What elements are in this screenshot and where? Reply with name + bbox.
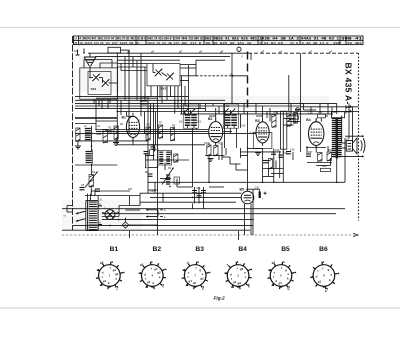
node xyxy=(336,182,338,184)
wire xyxy=(235,164,237,170)
tuning unit SK1 inner box xyxy=(88,72,111,95)
resistor R8 xyxy=(171,128,175,141)
capacitor C12 xyxy=(271,151,276,153)
node xyxy=(198,197,200,199)
output transformer T3 xyxy=(331,112,344,118)
capacitor C8 xyxy=(80,187,85,189)
wire xyxy=(230,163,241,165)
wire xyxy=(192,204,194,209)
tube socket B3 pin diagram xyxy=(184,265,206,287)
wire xyxy=(266,111,268,118)
wire xyxy=(75,140,148,142)
wire xyxy=(208,143,210,146)
wire xyxy=(148,149,150,155)
capacitor C15 xyxy=(306,153,311,155)
wire xyxy=(164,163,166,171)
wire xyxy=(315,118,317,122)
svg-text:C30: C30 xyxy=(290,148,295,151)
wire xyxy=(196,59,225,61)
resistor R6 xyxy=(146,127,150,140)
wire xyxy=(205,155,225,157)
resistor R14 xyxy=(287,114,291,126)
wire xyxy=(95,99,97,129)
wire xyxy=(203,187,205,204)
capacitor C22 xyxy=(144,151,149,153)
tuning unit SK1 outer box xyxy=(80,68,118,99)
ground xyxy=(255,152,261,154)
wire xyxy=(128,57,130,134)
wire xyxy=(180,80,189,82)
svg-text:R17: R17 xyxy=(308,151,313,154)
svg-text:g2: g2 xyxy=(200,277,204,281)
wire xyxy=(243,103,245,114)
wire xyxy=(240,114,242,128)
ground xyxy=(208,158,214,160)
wire xyxy=(161,86,163,103)
wire xyxy=(208,156,210,183)
resistor R15 xyxy=(294,113,298,124)
antenna terminal xyxy=(77,50,79,56)
capacitor C16 xyxy=(192,190,197,192)
wire xyxy=(84,59,112,61)
wire xyxy=(259,189,261,197)
resistor R3 xyxy=(76,128,80,141)
node xyxy=(247,147,249,149)
wire xyxy=(157,86,159,235)
svg-text:a2: a2 xyxy=(193,281,197,285)
node xyxy=(262,182,264,184)
node xyxy=(117,111,119,113)
antenna coil L1 xyxy=(84,56,96,58)
wire xyxy=(96,129,209,131)
wire xyxy=(244,204,246,235)
node xyxy=(157,105,159,107)
wire xyxy=(170,152,172,156)
wire xyxy=(188,65,190,114)
wire xyxy=(117,59,180,61)
wire xyxy=(315,146,317,153)
svg-text:f: f xyxy=(322,266,323,270)
speaker lead bottom xyxy=(342,155,363,157)
wire xyxy=(117,144,205,146)
svg-text:1B: 1B xyxy=(74,42,77,45)
svg-text:L29: L29 xyxy=(318,111,323,114)
wire xyxy=(93,99,95,103)
wire xyxy=(87,194,89,201)
wire xyxy=(250,204,252,235)
wire xyxy=(283,118,295,120)
oscillator coil box xyxy=(158,151,172,166)
wire xyxy=(99,77,103,79)
wire xyxy=(111,60,113,68)
capacitor C18 xyxy=(201,190,206,192)
node xyxy=(147,133,149,135)
wire xyxy=(306,147,326,149)
tube socket B4 pin diagram xyxy=(227,265,249,287)
wire xyxy=(148,181,345,183)
capacitor C11 xyxy=(148,173,153,175)
node xyxy=(231,103,233,105)
capacitor C17 xyxy=(197,193,202,195)
wire xyxy=(66,206,68,213)
wire xyxy=(248,148,263,150)
svg-text:f: f xyxy=(110,266,111,270)
AVC box xyxy=(253,132,272,148)
wire xyxy=(294,112,296,123)
wire xyxy=(144,67,146,100)
wire xyxy=(147,96,149,193)
wire xyxy=(117,111,358,113)
wire xyxy=(184,86,186,106)
svg-text:Fig.2: Fig.2 xyxy=(214,296,226,302)
wire xyxy=(77,141,79,146)
wire xyxy=(121,49,130,51)
resistor R12 xyxy=(269,159,273,169)
power transformer T4 xyxy=(89,201,97,203)
wire xyxy=(107,99,109,108)
node xyxy=(157,225,159,227)
node xyxy=(188,105,190,107)
title block row divider xyxy=(74,39,364,41)
IF transformer T2 xyxy=(223,104,238,128)
choke L2 xyxy=(85,128,91,130)
filter capacitor C19 xyxy=(259,192,261,199)
svg-text:R14: R14 xyxy=(288,111,293,114)
tube B4 xyxy=(309,122,324,146)
wire xyxy=(102,212,105,215)
wire xyxy=(348,103,350,138)
node xyxy=(95,129,97,131)
svg-text:g3: g3 xyxy=(140,263,144,267)
wire xyxy=(117,63,147,65)
capacitor C10 xyxy=(151,146,156,148)
tube socket B5 pin diagram xyxy=(270,265,292,287)
wire xyxy=(140,201,236,203)
wire xyxy=(73,224,254,226)
svg-text:1M: 1M xyxy=(179,121,182,124)
svg-text:B2: B2 xyxy=(208,117,212,121)
wire xyxy=(229,157,231,164)
capacitor C5 xyxy=(108,130,113,132)
svg-text:d: d xyxy=(144,272,146,276)
wire xyxy=(241,155,248,157)
svg-text:f: f xyxy=(281,266,282,270)
wire xyxy=(320,118,322,122)
svg-text:B2: B2 xyxy=(153,246,162,253)
wire xyxy=(75,105,300,107)
wire xyxy=(177,86,179,109)
wire xyxy=(215,143,217,146)
svg-text:g1: g1 xyxy=(318,280,322,284)
node xyxy=(174,103,176,105)
tuning unit SK2 box xyxy=(147,64,180,86)
svg-text:f: f xyxy=(231,277,232,281)
wire xyxy=(116,53,118,145)
wire xyxy=(75,133,256,135)
svg-text:g2: g2 xyxy=(157,270,161,274)
tube socket B6 pin diagram xyxy=(313,265,335,287)
node xyxy=(109,213,110,214)
wire xyxy=(218,106,220,114)
mains lead 1 xyxy=(76,212,84,214)
resistor R19 xyxy=(321,168,331,171)
wire xyxy=(159,86,161,98)
wire xyxy=(310,107,312,112)
node xyxy=(91,164,93,166)
wire xyxy=(96,97,158,99)
wire xyxy=(162,73,168,77)
svg-text:g2: g2 xyxy=(272,260,276,264)
wire xyxy=(183,131,193,133)
capacitor C12b xyxy=(263,160,269,162)
chassis frame right edge xyxy=(358,53,360,220)
tuning capacitor C3 xyxy=(156,70,162,76)
wire xyxy=(177,186,193,188)
wire xyxy=(117,66,147,68)
svg-text:f: f xyxy=(151,266,152,270)
svg-text:R13: R13 xyxy=(274,111,279,114)
svg-text:f: f xyxy=(187,275,188,279)
svg-text:C24: C24 xyxy=(241,125,246,128)
node xyxy=(283,151,285,153)
node xyxy=(238,51,239,52)
node xyxy=(91,145,93,147)
wire xyxy=(331,107,333,116)
wire xyxy=(341,116,343,144)
node xyxy=(157,166,159,168)
wire xyxy=(118,206,120,217)
wire xyxy=(299,53,301,152)
wire xyxy=(212,103,214,106)
ground terminal xyxy=(83,49,85,55)
tuning capacitor C1 xyxy=(93,75,99,81)
node xyxy=(89,77,91,79)
node xyxy=(140,105,142,107)
chassis frame bottom edge xyxy=(62,234,359,236)
wire xyxy=(127,115,134,117)
wire xyxy=(125,209,140,211)
wire xyxy=(111,82,117,84)
wire xyxy=(62,208,345,210)
svg-text:B3: B3 xyxy=(195,246,204,253)
resistor R1 xyxy=(103,130,108,143)
wire xyxy=(246,188,260,190)
svg-text:g1: g1 xyxy=(233,280,237,284)
wire xyxy=(124,57,126,100)
wire xyxy=(140,53,142,116)
output lead arrow 1 xyxy=(146,209,158,211)
wire xyxy=(283,124,293,126)
title block table frame xyxy=(74,36,364,45)
wire xyxy=(153,103,155,160)
dial lamp box xyxy=(108,47,121,53)
svg-text:g1: g1 xyxy=(189,279,193,283)
wire xyxy=(75,108,205,110)
wire xyxy=(279,151,281,178)
svg-text:R11: R11 xyxy=(219,142,224,145)
wire xyxy=(62,229,250,231)
svg-text:8A 30 B25 08 4A1 30: 8A 30 B25 08 4A1 30 xyxy=(206,42,252,45)
wire xyxy=(181,76,183,114)
svg-text:g1: g1 xyxy=(147,280,151,284)
tube socket B2 pin diagram xyxy=(142,265,164,287)
svg-text:L28: L28 xyxy=(309,112,314,115)
wire xyxy=(344,138,346,155)
wire xyxy=(103,99,105,100)
svg-text:SK1: SK1 xyxy=(91,87,97,91)
wire xyxy=(282,111,284,182)
tube socket B1 pin diagram xyxy=(99,265,121,287)
wire xyxy=(263,168,284,170)
node xyxy=(252,219,254,221)
svg-text:d: d xyxy=(275,279,277,283)
wire xyxy=(101,99,103,108)
svg-text:f: f xyxy=(237,266,238,270)
wire xyxy=(229,128,231,134)
wire xyxy=(180,75,196,77)
wire xyxy=(288,121,300,123)
wire xyxy=(288,75,290,111)
wire xyxy=(148,189,158,191)
wire xyxy=(75,164,117,166)
wire xyxy=(89,194,91,201)
svg-text:R15: R15 xyxy=(295,109,300,112)
wire xyxy=(89,73,91,78)
svg-text:g: g xyxy=(327,268,329,272)
svg-text:f: f xyxy=(102,275,103,279)
wire xyxy=(225,148,227,155)
capacitor C9 xyxy=(95,188,100,190)
svg-text:R19: R19 xyxy=(322,165,327,168)
svg-text:lc: lc xyxy=(287,287,290,291)
svg-text:d: d xyxy=(187,260,189,264)
resistor R18 xyxy=(327,152,332,161)
svg-text:LS: LS xyxy=(346,137,349,140)
wire xyxy=(109,82,112,84)
wire xyxy=(174,86,176,114)
node xyxy=(203,201,205,203)
wire xyxy=(67,205,73,207)
svg-text:31 8: 31 8 xyxy=(290,42,298,45)
wire xyxy=(215,108,217,122)
node xyxy=(157,144,159,146)
wire xyxy=(240,151,281,153)
wire xyxy=(300,106,358,108)
wire xyxy=(194,187,196,204)
svg-text:1043 7A 01 4B 257 1B0: 1043 7A 01 4B 257 1B0 xyxy=(147,42,187,45)
wire xyxy=(262,148,264,182)
wire xyxy=(275,161,277,169)
resistor R11 xyxy=(214,146,218,156)
svg-text:C34: C34 xyxy=(196,187,201,190)
wire xyxy=(199,103,201,108)
node xyxy=(95,103,97,105)
mains lead 2 xyxy=(76,219,84,221)
svg-text:g2: g2 xyxy=(115,272,119,276)
wire xyxy=(306,146,308,153)
tuning capacitor C2 xyxy=(103,80,109,86)
potentiometer R2 xyxy=(89,175,94,187)
node xyxy=(128,103,130,105)
wire xyxy=(263,176,274,178)
svg-text:d: d xyxy=(316,275,318,279)
wire xyxy=(342,142,347,144)
wire xyxy=(157,210,159,217)
node xyxy=(224,113,226,115)
svg-text:g1: g1 xyxy=(279,281,283,285)
svg-text:B5: B5 xyxy=(281,246,290,253)
wire xyxy=(84,211,86,213)
wire xyxy=(307,162,332,164)
resistor R20 xyxy=(174,154,178,162)
wire xyxy=(109,99,111,103)
wire xyxy=(120,64,122,71)
wire xyxy=(75,102,337,104)
svg-text:B6: B6 xyxy=(319,246,328,253)
svg-text:g1: g1 xyxy=(103,279,107,283)
wire xyxy=(327,146,329,152)
wire xyxy=(83,60,85,68)
svg-text:30 4B1: 30 4B1 xyxy=(347,42,362,45)
wire xyxy=(166,86,168,100)
svg-text:40B: 40B xyxy=(333,42,340,45)
dial cord line xyxy=(247,52,249,113)
svg-text:1b: 1b xyxy=(74,49,78,53)
wire xyxy=(256,115,263,117)
wire xyxy=(102,218,253,220)
wire xyxy=(152,64,154,73)
wire xyxy=(170,86,172,97)
wire xyxy=(75,123,96,125)
svg-text:lc: lc xyxy=(325,289,328,293)
svg-text:g3: g3 xyxy=(237,281,241,285)
wire xyxy=(75,118,117,120)
wire xyxy=(132,57,134,67)
wire xyxy=(134,224,158,226)
wire xyxy=(304,109,317,111)
wire xyxy=(268,169,270,177)
wire xyxy=(89,53,91,57)
voltage selector plug xyxy=(122,222,128,228)
wire xyxy=(96,120,117,122)
svg-text:f: f xyxy=(145,277,146,281)
svg-text:m: m xyxy=(64,215,66,218)
wire xyxy=(139,193,141,205)
wire xyxy=(154,182,156,193)
svg-text:g3: g3 xyxy=(100,260,104,264)
wire xyxy=(221,142,223,160)
tuning capacitor C4 xyxy=(167,74,173,80)
wire xyxy=(91,190,130,192)
svg-text:1B 30425 104 66: 1B 30425 104 66 xyxy=(80,42,104,45)
svg-text:M: M xyxy=(231,73,233,76)
wire xyxy=(262,106,264,121)
wire xyxy=(150,103,152,133)
wire xyxy=(148,167,158,169)
tube B3 xyxy=(256,122,269,143)
wire xyxy=(150,196,241,198)
wire xyxy=(100,62,117,64)
title block column dividers xyxy=(78,36,80,45)
wire xyxy=(94,190,96,197)
wire xyxy=(75,96,189,98)
trimmer capacitor C7 xyxy=(97,131,102,133)
wire xyxy=(319,103,321,114)
wire xyxy=(136,60,138,100)
wire xyxy=(91,142,93,152)
ground xyxy=(75,145,81,147)
wire xyxy=(67,211,73,213)
